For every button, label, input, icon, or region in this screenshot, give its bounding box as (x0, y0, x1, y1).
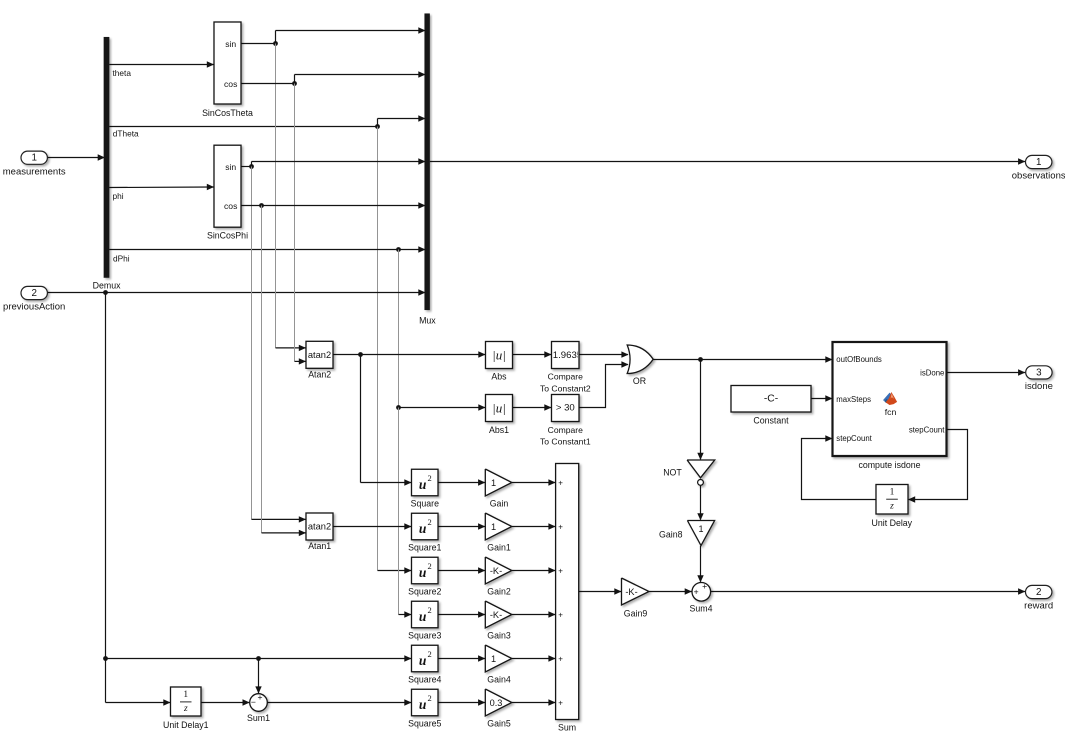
svg-text:Gain: Gain (490, 499, 509, 509)
svg-text:OR: OR (633, 376, 646, 386)
svg-text:+: + (702, 581, 707, 591)
svg-text:cos: cos (224, 201, 237, 211)
svg-text:+: + (257, 692, 262, 702)
svg-text:Compare: Compare (548, 372, 584, 382)
svg-text:+: + (558, 698, 563, 707)
svg-text:measurements: measurements (3, 166, 66, 177)
svg-text:Gain8: Gain8 (659, 529, 683, 539)
svg-text:-K-: -K- (625, 587, 637, 597)
svg-text:1: 1 (491, 654, 496, 664)
svg-text:Abs1: Abs1 (489, 425, 509, 435)
svg-text:Square: Square (411, 499, 439, 509)
svg-text:Unit Delay1: Unit Delay1 (163, 720, 209, 730)
svg-text:-C-: -C- (764, 394, 778, 405)
svg-text:previousAction: previousAction (3, 302, 65, 313)
svg-text:u: u (419, 565, 427, 580)
svg-text:+: + (694, 587, 699, 597)
svg-text:Square3: Square3 (408, 631, 441, 641)
svg-text:2: 2 (427, 517, 431, 527)
svg-text:1.9635: 1.9635 (553, 350, 582, 361)
svg-text:dPhi: dPhi (113, 253, 130, 263)
svg-text:2: 2 (31, 288, 36, 299)
svg-text:1: 1 (698, 524, 703, 534)
svg-text:maxSteps: maxSteps (836, 395, 871, 404)
svg-text:|u|: |u| (492, 348, 506, 363)
svg-text:SinCosPhi: SinCosPhi (207, 231, 248, 241)
svg-text:Abs: Abs (491, 372, 507, 382)
svg-text:−: − (251, 697, 256, 707)
svg-text:Mux: Mux (419, 315, 436, 325)
svg-text:2: 2 (427, 561, 431, 571)
svg-text:u: u (419, 653, 427, 668)
svg-text:theta: theta (113, 68, 132, 78)
svg-text:2: 2 (427, 605, 431, 615)
svg-text:Gain9: Gain9 (624, 608, 648, 618)
svg-text:2: 2 (427, 473, 431, 483)
svg-text:Gain5: Gain5 (487, 719, 511, 729)
svg-text:2: 2 (427, 693, 431, 703)
svg-text:3: 3 (1036, 367, 1042, 378)
svg-text:+: + (558, 478, 563, 487)
svg-text:Atan2: Atan2 (308, 370, 331, 380)
svg-text:dTheta: dTheta (113, 129, 139, 139)
svg-text:1: 1 (491, 522, 496, 532)
svg-text:sin: sin (225, 162, 236, 172)
svg-text:+: + (558, 566, 563, 575)
svg-text:sin: sin (225, 39, 236, 49)
svg-text:observations: observations (1012, 171, 1065, 182)
svg-text:outOfBounds: outOfBounds (836, 355, 882, 364)
svg-text:z: z (183, 704, 188, 714)
svg-text:Gain1: Gain1 (487, 543, 511, 553)
svg-text:z: z (889, 502, 894, 512)
svg-text:Square5: Square5 (408, 719, 441, 729)
svg-text:+: + (558, 610, 563, 619)
svg-text:Square4: Square4 (408, 675, 441, 685)
svg-text:1: 1 (491, 478, 496, 488)
svg-text:fcn: fcn (885, 407, 897, 417)
svg-text:Atan1: Atan1 (308, 541, 331, 551)
svg-text:Demux: Demux (93, 280, 121, 290)
svg-text:2: 2 (427, 649, 431, 659)
svg-text:u: u (419, 477, 427, 492)
svg-text:2: 2 (1036, 587, 1041, 598)
svg-text:u: u (419, 609, 427, 624)
svg-text:SinCosTheta: SinCosTheta (202, 108, 253, 118)
svg-text:reward: reward (1024, 601, 1053, 612)
svg-text:-K-: -K- (490, 610, 502, 620)
svg-text:NOT: NOT (663, 468, 682, 478)
svg-text:Sum: Sum (558, 723, 576, 733)
svg-text:0.3: 0.3 (490, 698, 503, 708)
svg-text:Gain2: Gain2 (487, 587, 511, 597)
svg-text:stepCount: stepCount (909, 426, 945, 435)
svg-text:stepCount: stepCount (836, 434, 872, 443)
svg-text:Gain3: Gain3 (487, 631, 511, 641)
svg-text:phi: phi (113, 191, 124, 201)
svg-text:u: u (419, 697, 427, 712)
svg-text:Sum1: Sum1 (247, 713, 270, 723)
svg-text:1: 1 (890, 487, 895, 497)
svg-text:1: 1 (31, 153, 36, 164)
svg-text:Unit Delay: Unit Delay (872, 518, 913, 528)
svg-text:> 30: > 30 (556, 402, 575, 413)
svg-text:Square1: Square1 (408, 543, 441, 553)
svg-text:isDone: isDone (920, 369, 944, 378)
svg-text:Square2: Square2 (408, 587, 441, 597)
svg-text:+: + (558, 522, 563, 531)
svg-text:Compare: Compare (548, 425, 584, 435)
svg-text:To Constant1: To Constant1 (540, 437, 591, 447)
svg-text:cos: cos (224, 79, 237, 89)
svg-text:Gain4: Gain4 (487, 675, 511, 685)
svg-text:atan2: atan2 (308, 522, 331, 532)
svg-text:Constant: Constant (753, 416, 789, 426)
svg-text:isdone: isdone (1025, 381, 1053, 392)
svg-text:-K-: -K- (490, 566, 502, 576)
svg-text:atan2: atan2 (308, 350, 331, 360)
svg-text:1: 1 (1036, 157, 1041, 168)
svg-text:Sum4: Sum4 (690, 603, 713, 613)
svg-text:compute isdone: compute isdone (858, 460, 920, 470)
svg-text:u: u (419, 521, 427, 536)
svg-text:To Constant2: To Constant2 (540, 383, 591, 393)
svg-text:|u|: |u| (492, 401, 506, 416)
svg-text:1: 1 (183, 690, 188, 700)
svg-text:+: + (558, 654, 563, 663)
